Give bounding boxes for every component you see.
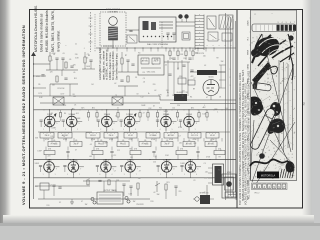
svg-text:.05: .05 [188, 140, 191, 142]
mid hanging components [169, 48, 171, 51]
switch box [207, 16, 216, 29]
photo rod side tangle [267, 118, 285, 133]
svg-text:R4: R4 [218, 170, 220, 172]
loop antenna dashed box [100, 12, 126, 46]
right top extra boxes [208, 32, 218, 41]
gnd symbol [71, 199, 73, 202]
title block MOTOROLA Chassis HS-680 [34, 5, 60, 52]
svg-text:R4: R4 [190, 96, 192, 98]
shield dash line B [94, 14, 96, 52]
svg-text:.05: .05 [122, 140, 125, 142]
svg-text:B+: B+ [148, 93, 150, 95]
svg-text:SW: SW [157, 194, 160, 196]
bus B+ [34, 95, 161, 97]
tube 12B6 [44, 116, 55, 127]
svg-text:C7: C7 [193, 78, 195, 80]
svg-text:R11: R11 [74, 78, 77, 80]
svg-text:is very similar.: is very similar. [56, 30, 60, 52]
bus low [34, 177, 237, 179]
tube 50C5 output [203, 80, 219, 96]
photo speckle texture [251, 33, 295, 179]
gnd line upper [35, 185, 90, 187]
top bus wire [96, 47, 236, 49]
dashed osc line [161, 22, 163, 48]
svg-text:GANG: GANG [247, 63, 250, 69]
pilot lamp B [184, 14, 188, 18]
photo knurl hatch [280, 169, 294, 178]
photo leader labels [247, 20, 250, 200]
svg-text:C3: C3 [115, 116, 117, 118]
svg-text:10MF: 10MF [164, 111, 168, 113]
svg-text:220: 220 [177, 105, 180, 107]
svg-text:7: 7 [80, 168, 81, 170]
svg-text:3: 3 [278, 22, 279, 24]
svg-text:47: 47 [203, 192, 205, 194]
svg-text:R11: R11 [73, 96, 76, 98]
svg-text:R12: R12 [148, 108, 151, 110]
svg-text:.1: .1 [217, 112, 218, 114]
grid caps row1 [40, 119, 43, 121]
speaker box [222, 174, 236, 198]
osc coil box [138, 55, 164, 75]
svg-text:10MF: 10MF [180, 163, 184, 165]
svg-text:2: 2 [43, 129, 44, 131]
svg-text:.05: .05 [89, 144, 91, 146]
svg-text:C16: C16 [169, 58, 172, 60]
tube 12BA6 [161, 116, 172, 127]
svg-text:2: 2 [129, 129, 130, 131]
small rects right [182, 32, 190, 40]
segment lines row A [38, 131, 92, 133]
photo bottom S cord [250, 159, 293, 166]
svg-text:C8: C8 [136, 94, 138, 96]
ground run [38, 198, 150, 200]
drop [165, 127, 167, 132]
svg-text:50C5: 50C5 [248, 108, 250, 113]
svg-text:C3: C3 [143, 78, 145, 80]
svg-text:IF-1: IF-1 [248, 124, 250, 127]
ant xfmr [53, 97, 64, 105]
trimmer cluster [127, 35, 137, 43]
bundle to speaker joins [226, 191, 237, 193]
svg-text:12AV6: 12AV6 [103, 159, 110, 162]
grid caps row2 [39, 164, 42, 166]
svg-text:.02: .02 [177, 68, 179, 70]
svg-text:6: 6 [290, 22, 291, 24]
svg-text:7: 7 [49, 129, 50, 131]
svg-text:.001: .001 [205, 171, 208, 173]
svg-text:R9: R9 [143, 72, 145, 74]
IF boxes row A [40, 133, 54, 139]
svg-text:C12: C12 [117, 150, 120, 152]
svg-text:R11: R11 [51, 136, 54, 138]
svg-text:IF-2: IF-2 [248, 37, 250, 40]
svg-text:.05: .05 [73, 72, 75, 74]
svg-text:.05: .05 [165, 65, 167, 67]
svg-text:6: 6 [114, 123, 115, 125]
photo faint strokes [248, 36, 296, 176]
svg-text:OSC COIL: OSC COIL [191, 135, 198, 137]
svg-text:B+: B+ [167, 92, 169, 94]
svg-text:R9: R9 [129, 149, 131, 151]
svg-text:10MF: 10MF [76, 118, 80, 120]
svg-text:2ND IF: 2ND IF [74, 144, 79, 146]
svg-text:OUTPUT TRANS: OUTPUT TRANS [103, 189, 117, 192]
svg-text:.1: .1 [220, 178, 221, 180]
svg-text:2ND IF: 2ND IF [45, 135, 50, 137]
svg-text:PRI 455: PRI 455 [90, 135, 96, 137]
drop [49, 127, 51, 132]
photo leaf band [252, 62, 271, 84]
svg-text:.02: .02 [153, 192, 155, 194]
svg-text:5: 5 [79, 123, 80, 125]
osc xfmr [112, 97, 123, 105]
second stage cluster [121, 58, 123, 64]
svg-text:12BE6: 12BE6 [126, 114, 133, 116]
tube 12B6 [44, 162, 55, 173]
svg-text:R9: R9 [38, 84, 40, 86]
svg-text:220: 220 [203, 55, 206, 57]
svg-text:C7: C7 [205, 178, 207, 180]
svg-text:35W4: 35W4 [186, 114, 192, 116]
svg-text:4: 4 [282, 22, 283, 24]
divider line [236, 10, 238, 208]
svg-text:47: 47 [155, 157, 157, 159]
svg-text:220: 220 [153, 84, 156, 86]
tube 12BE6 [125, 162, 136, 173]
svg-text:73: 73 [302, 102, 306, 106]
svg-text:12BA6: 12BA6 [247, 180, 250, 186]
left rail branches [34, 75, 47, 77]
drop [188, 127, 190, 132]
svg-text:7: 7 [56, 168, 57, 170]
photo vertical cords [278, 60, 280, 150]
svg-text:LOOP ANT.: LOOP ANT. [108, 10, 118, 13]
svg-text:3: 3 [172, 174, 173, 176]
stubs below top bus [99, 48, 101, 52]
band switch hatch box [219, 15, 233, 29]
svg-text:220: 220 [178, 191, 181, 193]
mid wires [164, 61, 190, 63]
svg-text:10MF: 10MF [37, 150, 41, 152]
power transformer block [213, 164, 224, 185]
svg-text:R9: R9 [51, 113, 53, 115]
svg-text:C7: C7 [76, 161, 78, 163]
bottom feed wire [83, 180, 130, 182]
svg-text:R4: R4 [91, 84, 93, 86]
svg-text:R19: R19 [151, 201, 154, 203]
svg-text:VOLUME 9 - 21 • MOST-OFTEN-: VOLUME 9 - 21 • MOST-OFTEN-NEEDED 1962 R… [21, 25, 26, 205]
riser [188, 110, 190, 116]
svg-text:2ND IF: 2ND IF [165, 144, 170, 146]
svg-text:.02: .02 [204, 65, 206, 67]
svg-text:OSC: OSC [248, 152, 250, 157]
svg-text:6: 6 [135, 129, 136, 131]
padder caps [166, 32, 169, 34]
svg-text:.02: .02 [154, 90, 156, 92]
svg-text:4: 4 [166, 174, 167, 176]
cable bundle to gang [225, 13, 227, 200]
photo bottom right blob [286, 162, 295, 173]
riser [106, 110, 108, 116]
loop antenna coil [109, 17, 118, 26]
svg-text:50C5: 50C5 [209, 77, 215, 79]
photo horizontal component [253, 82, 272, 91]
svg-text:1 2: 1 2 [254, 14, 256, 16]
svg-text:C14: C14 [214, 109, 217, 111]
photo hook wire [268, 66, 277, 74]
zone cluster boxes [178, 78, 186, 84]
svg-text:PWR: PWR [248, 195, 250, 200]
svg-text:10MF: 10MF [103, 143, 107, 145]
svg-text:7: 7 [294, 22, 295, 24]
rectifier cluster [200, 195, 210, 204]
tube 50C5 [185, 162, 196, 173]
svg-text:12BA6: 12BA6 [163, 113, 170, 116]
svg-text:DIAL CORD STRINGING: DIAL CORD STRINGING [147, 43, 169, 46]
svg-text:.05: .05 [62, 53, 64, 55]
svg-text:C1: C1 [75, 44, 77, 46]
svg-text:PRI 455: PRI 455 [120, 144, 126, 146]
svg-text:.1: .1 [115, 64, 116, 66]
photo diagonal rod [249, 107, 276, 150]
svg-text:220: 220 [47, 156, 50, 158]
zone 165-196 verticals [167, 60, 169, 96]
svg-text:2: 2 [230, 77, 231, 79]
svg-text:.1: .1 [204, 105, 205, 107]
svg-text:50C5: 50C5 [248, 166, 250, 171]
drop [106, 127, 108, 132]
svg-text:C18: C18 [184, 92, 187, 94]
svg-text:R4: R4 [64, 113, 66, 115]
svg-text:10MF: 10MF [51, 128, 55, 130]
photo lower-left mass [251, 96, 263, 115]
svg-text:12AV6: 12AV6 [247, 20, 250, 26]
dial strip [252, 24, 296, 32]
svg-text:5: 5 [123, 129, 124, 131]
svg-text:R12: R12 [159, 108, 162, 110]
svg-text:.05: .05 [144, 140, 147, 142]
right scan edge [302, 0, 314, 222]
svg-text:R2 470K: R2 470K [58, 88, 66, 90]
left low cluster [40, 183, 49, 190]
row C scattered [44, 151, 55, 155]
svg-text:R7: R7 [125, 55, 127, 57]
svg-text:C7: C7 [168, 164, 170, 166]
outer frame [30, 10, 303, 209]
bus second [40, 102, 160, 104]
svg-text:C3: C3 [193, 180, 195, 182]
svg-text:3: 3 [173, 123, 174, 125]
svg-text:MOTOROLA Chassis HS-680.: MOTOROLA Chassis HS-680. [34, 5, 38, 52]
svg-text:47: 47 [81, 201, 83, 203]
bus AVC [34, 109, 237, 111]
svg-text:3: 3 [230, 85, 231, 87]
photo socket blob [270, 102, 281, 116]
svg-text:C7: C7 [114, 171, 116, 173]
svg-text:47: 47 [88, 178, 90, 180]
shield dash line A [90, 12, 92, 52]
left scan edge [0, 0, 11, 226]
svg-text:5: 5 [56, 123, 57, 125]
svg-text:C12: C12 [140, 97, 143, 99]
gang arrow 1 [44, 115, 55, 127]
svg-text:6: 6 [197, 168, 198, 170]
riser [165, 110, 167, 116]
drop [129, 127, 131, 132]
svg-text:R6: R6 [216, 93, 218, 95]
wire antenna down [112, 40, 114, 48]
tube 12AV6 [101, 162, 112, 173]
svg-text:12AV6: 12AV6 [104, 113, 111, 116]
photo dial cord diagonals [250, 34, 295, 184]
svg-text:47: 47 [143, 112, 145, 114]
svg-text:R14: R14 [183, 58, 186, 60]
svg-text:C3: C3 [86, 58, 88, 60]
tube 12BA6 [161, 162, 172, 173]
svg-text:.02: .02 [166, 96, 168, 98]
svg-text:47: 47 [75, 150, 77, 152]
svg-text:SPKR: SPKR [248, 78, 250, 84]
photo big tangle [252, 34, 281, 59]
svg-text:.02: .02 [114, 83, 116, 85]
svg-text:TOP VIEW OF CHASSIS SHOWING LO: TOP VIEW OF CHASSIS SHOWING LOCATION OF … [239, 72, 242, 205]
photo frame [251, 10, 297, 181]
svg-text:SW: SW [221, 61, 224, 63]
svg-text:NUMBERS REFER TO ALIGNMENT POI: NUMBERS REFER TO ALIGNMENT POINTS LISTED… [242, 69, 245, 201]
svg-text:6: 6 [136, 123, 137, 125]
electrolytic can [174, 94, 187, 101]
svg-text:5: 5 [286, 22, 287, 24]
svg-text:GANG: GANG [247, 92, 250, 98]
aux cluster [84, 57, 86, 63]
tube socket chart ladder [194, 15, 196, 51]
dial detail box [139, 17, 176, 42]
svg-text:220: 220 [75, 54, 78, 56]
photo leader lines [250, 17, 253, 19]
svg-text:VOLTAGES MEASURED WITH VTVM FR: VOLTAGES MEASURED WITH VTVM FROM SOCKET … [245, 82, 248, 205]
hanging resistors row1 [60, 110, 62, 113]
svg-text:.05: .05 [166, 140, 169, 142]
svg-text:HS-680. HS-680 in Models: HS-680. HS-680 in Models [45, 10, 49, 52]
bus junction dots [43, 108, 46, 111]
photo mid blob small [259, 153, 265, 159]
svg-text:2.2M: 2.2M [165, 155, 169, 157]
bundle stubs [219, 64, 226, 66]
svg-text:R21: R21 [167, 182, 170, 184]
svg-text:6: 6 [112, 129, 113, 131]
svg-text:C7: C7 [179, 135, 181, 137]
bus mid [34, 159, 237, 161]
bottom scan edge [3, 215, 314, 226]
svg-text:47: 47 [139, 171, 141, 173]
svg-text:.001: .001 [179, 142, 182, 144]
svg-text:OSC COIL: OSC COIL [147, 72, 156, 74]
svg-text:C7: C7 [50, 185, 52, 187]
svg-text:C14: C14 [172, 107, 175, 109]
gang arrow 2 [124, 115, 135, 127]
svg-text:.05: .05 [210, 140, 213, 142]
svg-text:R19: R19 [47, 205, 50, 207]
svg-text:.001: .001 [75, 113, 78, 115]
riser [129, 110, 131, 116]
svg-text:.05: .05 [100, 140, 103, 142]
svg-text:.001: .001 [89, 156, 92, 158]
pilot lamp A [178, 14, 182, 18]
svg-text:MOTOROLA: MOTOROLA [261, 174, 276, 177]
IF boxes row B [48, 142, 60, 147]
photo caption black box [257, 172, 279, 179]
svg-text:.001: .001 [35, 186, 38, 188]
svg-text:47: 47 [206, 97, 208, 99]
tube 12BA6 [68, 162, 79, 173]
svg-text:R11: R11 [196, 53, 199, 55]
svg-text:3.2: 3.2 [59, 202, 61, 204]
svg-text:.1: .1 [83, 48, 84, 50]
svg-text:C3: C3 [204, 163, 206, 165]
svg-text:1: 1 [230, 69, 231, 71]
alignment note block [98, 48, 119, 80]
tube 12BE6 [124, 116, 135, 127]
shield ticks [89, 17, 93, 19]
svg-text:.05: .05 [69, 59, 72, 61]
left rail [33, 52, 35, 199]
svg-text:5M71, 5M74, 5M75, 5M76,: 5M71, 5M74, 5M75, 5M76, [51, 10, 55, 52]
svg-text:.001: .001 [181, 90, 184, 92]
svg-text:C9: C9 [135, 77, 137, 79]
svg-text:R9: R9 [216, 58, 218, 60]
svg-text:R9: R9 [193, 89, 195, 91]
svg-text:C8: C8 [115, 95, 117, 97]
svg-text:C7: C7 [87, 54, 89, 56]
svg-text:10MF: 10MF [141, 105, 145, 107]
drop [71, 127, 73, 132]
output transformer [97, 192, 123, 204]
photo caption column [239, 69, 250, 205]
onoff switch [156, 181, 158, 192]
svg-text:3: 3 [173, 168, 174, 170]
svg-text:.05: .05 [75, 140, 78, 142]
detector cluster [34, 63, 51, 65]
svg-text:C7: C7 [152, 64, 154, 66]
riser [49, 110, 51, 116]
svg-text:220: 220 [153, 161, 156, 163]
verticals between rows [43, 138, 45, 142]
tube 35W4 [184, 116, 195, 127]
wires detail box to chart [176, 21, 195, 23]
svg-text:.1: .1 [51, 60, 52, 62]
svg-text:.05: .05 [143, 82, 145, 84]
svg-text:PM SPKR: PM SPKR [136, 204, 144, 206]
riser [71, 110, 73, 116]
svg-text:SPKR: SPKR [248, 49, 250, 55]
svg-text:47: 47 [101, 71, 103, 73]
svg-text:R9: R9 [219, 156, 221, 158]
svg-text:C7: C7 [126, 170, 128, 172]
svg-text:GANG: GANG [247, 136, 250, 142]
svg-text:SPKR: SPKR [227, 172, 232, 174]
svg-text:.02: .02 [116, 137, 118, 139]
filter choke bar [197, 70, 217, 75]
svg-text:.05: .05 [53, 140, 56, 142]
svg-text:C12: C12 [113, 155, 116, 157]
mid low caps [122, 183, 125, 185]
tube 12AV6 [102, 116, 113, 127]
svg-text:Used in same models as: Used in same models as [40, 13, 44, 52]
svg-text:12BA6: 12BA6 [163, 159, 170, 162]
dial strip buttons [277, 25, 280, 31]
photo bottom number strip [252, 183, 288, 190]
